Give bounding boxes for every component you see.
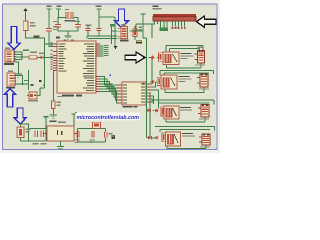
wire caps to rail [58, 27, 78, 33]
terminal block J7 [199, 134, 210, 148]
wires X3 [21, 124, 47, 141]
terminal block J6 [198, 105, 209, 120]
power symbol C3 top [46, 6, 51, 12]
resistor R3 [51, 101, 61, 109]
wire U1 to R3 [53, 71, 62, 102]
power symbol mid-right [96, 6, 102, 12]
capacitor C5 [75, 131, 81, 143]
net labels J1 [152, 21, 186, 31]
capacitor C7 [104, 132, 112, 138]
wire mid distribution [130, 17, 152, 38]
wires U1 port0 nets [100, 45, 109, 56]
ground R3 [50, 109, 57, 119]
wires RL2 loop [150, 71, 214, 93]
annotation blue arrow down (crystal input) [115, 9, 129, 28]
crystal X3 [17, 127, 31, 138]
label CRYSTAL [65, 20, 76, 22]
diode D9 [148, 136, 151, 140]
connector J2 CONN-SIL5 [4, 48, 16, 65]
resistor R2 [29, 51, 37, 59]
lamp D8 indicator [155, 109, 159, 113]
meter readout [136, 40, 142, 43]
net label RST [34, 36, 40, 38]
annotation blue arrow up (sensor U3) [4, 89, 15, 108]
wire bottom feed [146, 128, 148, 130]
terminal block J5 [197, 74, 209, 90]
wires RL3 loop [147, 100, 215, 122]
wires J2 to U1 [16, 52, 30, 60]
power symbol BT1 [71, 112, 77, 126]
wire U4 out1 [150, 58, 152, 85]
crystal X1 [65, 9, 73, 19]
lamp D5 indicator [151, 56, 155, 60]
resistor R1 [23, 21, 35, 31]
resistor network RN1 [133, 26, 142, 40]
capacitor C3 [46, 26, 58, 31]
diode D1 [39, 53, 45, 60]
ground crystal [64, 34, 71, 40]
net label U3 [24, 80, 29, 81]
annotation black arrow right [125, 52, 145, 63]
capacitor C1 [53, 21, 61, 27]
label BT1 [50, 121, 67, 123]
transistor Q4 [162, 133, 165, 142]
wires U1 P2 to U4 inputs [100, 77, 117, 104]
junction U3 [22, 83, 24, 85]
wire rails to opto [87, 36, 117, 39]
terminal block J4 [195, 46, 206, 65]
wires J1 stubs [0, 0, 1, 1]
ground J2 [15, 72, 22, 78]
wires SW1 [27, 44, 45, 96]
microcontroller U1 AT89C51 [50, 37, 100, 97]
wire D1 to U1 [44, 57, 53, 59]
transistor Q2 [157, 77, 161, 85]
net label J2 [23, 50, 29, 51]
annotation blue arrow down (connector J2) [8, 27, 20, 50]
wire U4 out4 [150, 93, 153, 138]
annotation blue arrow down (crystal X3) [14, 108, 26, 124]
capacitor C8 [33, 131, 39, 145]
net arrow head [114, 46, 118, 49]
capacitor C9 [41, 131, 47, 145]
push button SW1 [28, 84, 38, 101]
capacitor C11 [85, 24, 91, 36]
wire U4 out2 [151, 82, 156, 87]
wire R1 top [25, 11, 27, 22]
svg-text:microcontrollerslab.com: microcontrollerslab.com [77, 115, 140, 121]
wire C3 upper [48, 12, 50, 17]
opto-coupler U5 [118, 24, 129, 42]
component U3 sensor [6, 71, 16, 89]
wire C3 down [49, 31, 53, 46]
power symbol X3 rail [43, 116, 48, 128]
lamp D10 indicator [155, 136, 159, 140]
power symbol U1 VCC [56, 6, 62, 18]
junction J2 bus [21, 56, 23, 58]
wires U3 outputs [16, 70, 29, 90]
wires supply rails [78, 129, 106, 143]
battery BT1 [44, 126, 78, 141]
net label green [110, 24, 115, 27]
capacitor C2 [74, 21, 81, 27]
wire feed left rail [146, 38, 148, 138]
relay RL1 [163, 52, 194, 65]
pin numbers 18 19 [64, 40, 75, 41]
relay RL4 [166, 132, 196, 146]
capacitor C6 [90, 131, 96, 143]
wires RL4 loop [147, 127, 215, 149]
wire vcc rail top middle [99, 12, 115, 47]
power symbol (VCC arrow) top-left [23, 8, 27, 11]
watermark microcontrollerslab.com [76, 113, 141, 122]
connector J1 CONN-H14 [153, 6, 197, 21]
wire R1 to RST [26, 31, 54, 45]
relay RL2 [161, 75, 192, 89]
diode D11 [89, 119, 101, 129]
relay RL3 [164, 106, 192, 119]
transistor Q3 [161, 107, 165, 116]
wire R2 to D1 [37, 56, 41, 58]
annotation black arrow left [197, 16, 217, 27]
driver IC U4 ULN2003A [117, 82, 151, 108]
lamp D6 indicator [151, 80, 155, 84]
wire to C3 [48, 17, 50, 29]
diode D7 [148, 109, 151, 113]
wire crystal rail top [58, 18, 78, 25]
wires RL1 loop [149, 46, 204, 69]
transistor Q1 [159, 53, 163, 61]
capacitor C10 [96, 28, 101, 36]
power symbol mid [140, 13, 145, 17]
net label left [39, 80, 45, 86]
annotation blue dot [110, 75, 112, 77]
wire bus into opto [112, 27, 118, 45]
ground BT1 [57, 141, 64, 150]
wire J2 pin5 to ground [16, 62, 19, 72]
wire U4 out5 [151, 96, 154, 104]
wire U4 out3 [151, 90, 159, 109]
meter text [111, 135, 115, 139]
